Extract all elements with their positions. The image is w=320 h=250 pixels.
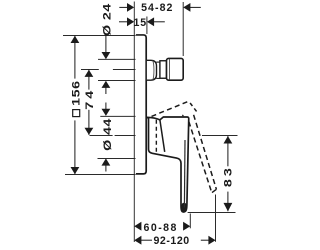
dim o24 leader top <box>105 35 107 54</box>
wall line <box>133 2 135 243</box>
15 right extension line <box>146 17 148 35</box>
handle blade foot fill <box>181 205 186 209</box>
knob body chamfer line <box>169 59 171 80</box>
arrow 15 left <box>127 17 134 26</box>
arrow 74 bottom <box>85 128 94 135</box>
knob body <box>167 58 184 80</box>
label o44 <box>102 118 114 151</box>
dim 92-120 stubs <box>140 239 152 241</box>
dashed arm tick <box>182 115 183 116</box>
60-88 right extension line <box>189 214 191 229</box>
dashed blade bottom cap <box>212 189 216 192</box>
svg-text:83: 83 <box>222 165 234 187</box>
svg-text:Ø 44: Ø 44 <box>102 118 114 151</box>
escutcheon plate (side view) <box>136 35 146 174</box>
svg-text:54-82: 54-82 <box>141 2 173 14</box>
label 74 <box>83 88 95 110</box>
54-82 right extension line <box>182 2 184 56</box>
arrow 83 top <box>224 136 233 144</box>
arrow 83 bottom <box>224 203 233 212</box>
knob dome at plate <box>147 60 157 80</box>
dim 83 line lower <box>227 192 229 212</box>
boss top extension line <box>100 115 135 117</box>
arrow o24 top <box>102 52 111 59</box>
plate bottom extension line <box>65 174 136 176</box>
arrow o44 bottom <box>102 158 111 165</box>
knob bottom extension line <box>98 80 136 82</box>
handle boss right edge <box>160 120 165 152</box>
knob top extension line <box>98 58 136 60</box>
knob ring <box>160 61 167 79</box>
svg-text:74: 74 <box>83 88 95 110</box>
arrow 60-88 right <box>183 222 190 231</box>
dim 54-82 tails <box>119 6 128 8</box>
dim o44 bottom shaft <box>105 164 107 172</box>
handle (solid position) outline <box>147 117 189 212</box>
arrow 54-82 left <box>127 3 134 12</box>
label o24 <box>101 3 113 36</box>
handle centerline left <box>90 135 113 137</box>
boss bottom extension line <box>98 158 136 160</box>
handle centerline right <box>202 135 238 137</box>
arrow 15 right <box>147 17 154 26</box>
label square 156 <box>70 80 82 116</box>
svg-text:60-88: 60-88 <box>144 222 178 234</box>
dim 74 line <box>88 69 90 89</box>
svg-text:156: 156 <box>70 80 82 105</box>
arrow 54-82 right <box>183 3 190 12</box>
arrow o44 top <box>102 109 111 116</box>
dashed boss line <box>155 120 157 152</box>
arrow o24 bottom <box>102 81 111 88</box>
svg-text:15: 15 <box>134 17 147 29</box>
plate top extension line <box>63 35 136 37</box>
dashed blade left face <box>189 122 212 193</box>
dashed handle butt corner <box>190 103 197 112</box>
knob centerline <box>81 69 99 71</box>
knob dome inner rim <box>153 61 154 80</box>
dim o24 bottom shaft <box>105 86 107 94</box>
92-120 right extension line <box>215 195 217 242</box>
svg-text:Ø 24: Ø 24 <box>101 3 113 36</box>
arrow 156 top <box>71 36 80 43</box>
knob neck lines <box>156 61 160 63</box>
arrow 92-120 left <box>134 236 141 245</box>
dim square156 line <box>74 36 76 79</box>
dim o44 top shaft <box>105 103 107 111</box>
label 83 <box>222 165 234 187</box>
dim 15 tails <box>119 21 129 23</box>
svg-text:92-120: 92-120 <box>153 235 189 247</box>
arrow 92-120 right <box>208 236 215 245</box>
handle bottom extension line <box>188 212 236 214</box>
handle blade inner line <box>183 140 186 208</box>
dashed handle top edge <box>152 102 188 117</box>
arrow 156 bottom <box>71 167 80 174</box>
arrow 74 top <box>85 70 94 77</box>
dim 83 line upper <box>227 136 229 166</box>
dashed blade right face <box>194 115 217 190</box>
arrow 60-88 left <box>134 222 141 231</box>
